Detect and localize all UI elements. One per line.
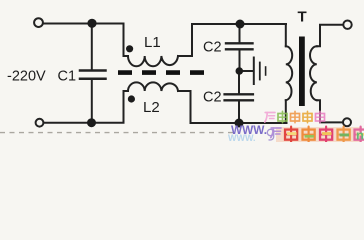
svg-text:C2: C2 <box>203 90 222 106</box>
svg-text:L1: L1 <box>144 34 161 51</box>
svg-text:C2: C2 <box>203 40 222 56</box>
svg-text:-220V: -220V <box>7 69 46 85</box>
svg-text:WWW.: WWW. <box>228 133 256 142</box>
svg-text:n: n <box>356 128 364 143</box>
svg-text:T: T <box>298 9 307 26</box>
svg-text:C1: C1 <box>58 69 77 85</box>
svg-text:L2: L2 <box>143 99 160 116</box>
